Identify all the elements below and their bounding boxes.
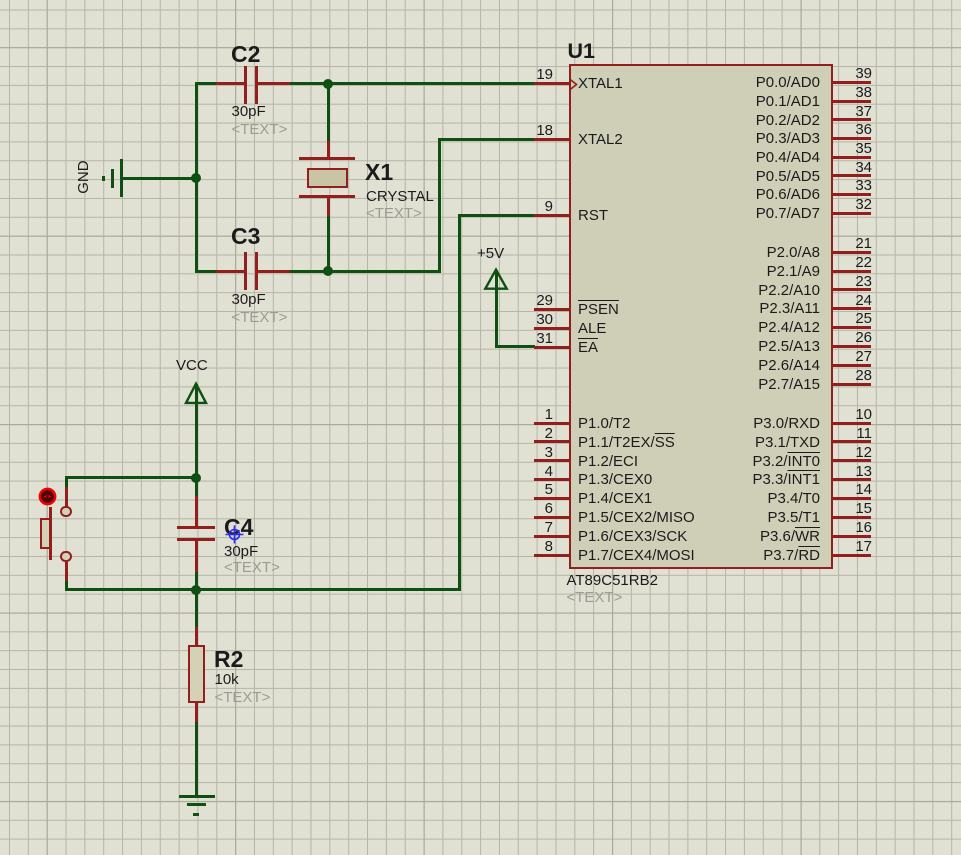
pin 8 stub (left) [534, 554, 570, 557]
pin 34 stub (right) [833, 174, 872, 177]
pin label pin21 [620, 245, 820, 261]
capacitor C3 right lead [258, 270, 290, 273]
resistor R2 top lead [195, 627, 198, 646]
value 30pF of C2 [232, 104, 266, 120]
pin number 24 [812, 293, 872, 309]
pin label P1.0/T2 [578, 416, 631, 432]
pin 32 stub (right) [833, 212, 872, 215]
placeholder &lt;TEXT&gt; of U1 [567, 590, 623, 606]
pin 4 stub (left) [534, 478, 570, 481]
pin number 10 [812, 407, 872, 423]
pin 12 stub (right) [833, 459, 872, 462]
wire X1 bottom to C3 net [327, 216, 330, 273]
pin 37 stub (right) [833, 118, 872, 121]
pin number 14 [812, 482, 872, 498]
pin 38 stub (right) [833, 100, 872, 103]
wire XTAL2 horizontal to pin 18 [438, 138, 535, 141]
label VCC [176, 358, 208, 374]
crystal X1 top lead [327, 141, 330, 158]
capacitor C2 left plate [244, 66, 247, 104]
pin label P1.7/CEX4/MOSI [578, 548, 695, 564]
pin 35 stub (right) [833, 156, 872, 159]
pin 5 stub (left) [534, 497, 570, 500]
wire +5V to pin 31 EA [495, 345, 535, 348]
capacitor C4 top lead [195, 496, 198, 527]
origin marker (blue) of C4 [224, 524, 245, 545]
label GND (rotated) [75, 157, 91, 197]
pin label pin26 [620, 339, 820, 355]
pin number 34 [812, 160, 872, 176]
pin number 17 [812, 539, 872, 555]
wire RST vertical x=459 [458, 214, 461, 591]
pin label pin28 [620, 377, 820, 393]
pin number 15 [812, 501, 872, 517]
pin label pin23 [620, 283, 820, 299]
pin 19 stub (left) [534, 82, 570, 85]
label C4 [224, 515, 253, 540]
label C3 [231, 224, 260, 249]
value 30pF of C4 [224, 544, 258, 560]
pin 2 stub (left) [534, 440, 570, 443]
ground symbol GND (rotated) tall bar [120, 159, 123, 197]
pin label ALE [578, 321, 606, 337]
pin number 25 [812, 311, 872, 327]
pin label pin38 [620, 94, 820, 110]
pin label pin16 [620, 529, 820, 545]
pin 31 stub (left) [534, 346, 570, 349]
button bottom contact circle [60, 551, 72, 563]
junction node bottom rail / C4 / R2 [191, 585, 201, 595]
pin label P1.2/ECI [578, 454, 638, 470]
wire button top horizontal [65, 476, 198, 479]
pin label pin25 [620, 320, 820, 336]
pin 6 stub (left) [534, 516, 570, 519]
pin 24 stub (right) [833, 307, 872, 310]
placeholder &lt;TEXT&gt; of C3 [232, 310, 288, 326]
wire C3 left segment [195, 270, 217, 273]
pin number 31 [493, 331, 553, 347]
pin 28 stub (right) [833, 383, 872, 386]
ground symbol bottom bar2 [187, 803, 207, 806]
pin 29 stub (left) [534, 308, 570, 311]
pin label pin35 [620, 150, 820, 166]
wire button bottom green part [65, 581, 68, 590]
pin label pin12 [620, 454, 820, 470]
pin 39 stub (right) [833, 81, 872, 84]
chip U1 body AT89C51RB2 [569, 64, 833, 569]
ground symbol bottom bar1 [179, 795, 215, 798]
wire C3 right to XTAL2 vertical [290, 270, 441, 273]
pin 10 stub (right) [833, 422, 872, 425]
pin number 13 [812, 464, 872, 480]
pin label 2 [578, 435, 675, 451]
capacitor C3 right plate [255, 252, 259, 290]
placeholder &lt;TEXT&gt; of C4 [224, 560, 280, 576]
pin 7 stub (left) [534, 535, 570, 538]
button actuator arm [49, 507, 52, 560]
resistor R2 bottom lead [195, 702, 198, 722]
pin number 19 [493, 67, 553, 83]
pin number 36 [812, 122, 872, 138]
button red actuator knob [38, 487, 58, 507]
pin 23 stub (right) [833, 288, 872, 291]
ground symbol bottom bar3 [193, 813, 199, 816]
pin number 23 [812, 274, 872, 290]
label X1 [365, 160, 393, 185]
wire node to R2 top [195, 590, 198, 629]
pin label pin14 [620, 491, 820, 507]
wire R2 bottom to ground [195, 722, 198, 796]
pin number 37 [812, 104, 872, 120]
pin number 29 [493, 293, 553, 309]
pin 15 stub (right) [833, 516, 872, 519]
wire left vertical x=196 (C2 to C3) [195, 82, 198, 273]
pin label XTAL2 [578, 132, 623, 148]
ground symbol GND medium bar [111, 169, 114, 188]
pin number 35 [812, 141, 872, 157]
button body [40, 518, 51, 549]
pin 3 stub (left) [534, 459, 570, 462]
crystal X1 top plate [299, 157, 355, 160]
capacitor C3 left plate [244, 252, 248, 290]
pin 26 stub (right) [833, 345, 872, 348]
pin 11 stub (right) [833, 440, 872, 443]
pin number 28 [812, 368, 872, 384]
label R2 [214, 647, 243, 672]
pin label 29 [578, 302, 619, 318]
pin label pin37 [620, 113, 820, 129]
pin label pin33 [620, 187, 820, 203]
pin label P1.4/CEX1 [578, 491, 652, 507]
pin 25 stub (right) [833, 326, 872, 329]
pin number 11 [812, 426, 872, 442]
pin 9 stub (left) [534, 214, 570, 217]
label +5V [477, 246, 504, 262]
pin number 4 [493, 464, 553, 480]
capacitor C3 left lead [216, 270, 244, 273]
wire VCC stem down to node [195, 384, 198, 478]
button top lead [65, 487, 68, 507]
junction node C3/X1 bottom [323, 266, 333, 276]
pin 21 stub (right) [833, 251, 872, 254]
pin 18 stub (left) [534, 138, 570, 141]
wire C2 right to XTAL1 pin [290, 82, 535, 85]
pin label pin36 [620, 131, 820, 147]
pin 33 stub (right) [833, 193, 872, 196]
pin label P1.3/CEX0 [578, 472, 652, 488]
pin number 9 [493, 199, 553, 215]
capacitor C2 right plate [255, 66, 258, 104]
pin number 32 [812, 197, 872, 213]
resistor R2 body [188, 645, 205, 703]
pin number 18 [493, 123, 553, 139]
pin label P1.5/CEX2/MISO [578, 510, 695, 526]
pin number 6 [493, 501, 553, 517]
pin number 38 [812, 85, 872, 101]
crystal X1 bottom plate [299, 195, 355, 198]
wire button top lead green part [65, 476, 68, 488]
capacitor C4 bottom lead [195, 539, 198, 572]
value 30pF of C3 [232, 292, 266, 308]
wire XTAL2 vertical x=439 [438, 138, 441, 271]
capacitor C4 bottom plate [177, 538, 215, 541]
pin number 21 [812, 236, 872, 252]
pin number 8 [493, 539, 553, 555]
junction node GND [191, 173, 201, 183]
pin label pin15 [620, 510, 820, 526]
pin 1 stub (left) [534, 422, 570, 425]
label U1 [568, 40, 595, 63]
pin 13 stub (right) [833, 478, 872, 481]
pin label 31 [578, 340, 598, 356]
pin label pin24 [620, 301, 820, 317]
pin label P1.6/CEX3/SCK [578, 529, 687, 545]
placeholder &lt;TEXT&gt; of X1 [366, 206, 422, 222]
crystal X1 bottom lead [327, 196, 330, 216]
pin number 16 [812, 520, 872, 536]
wire +5V stem [495, 270, 498, 347]
pin label pin27 [620, 358, 820, 374]
wire C4 bottom green part [195, 572, 198, 592]
wire bottom horizontal y=589 [65, 588, 461, 591]
pin label RST [578, 208, 608, 224]
pin 22 stub (right) [833, 270, 872, 273]
power symbol VCC arrow [182, 380, 210, 406]
pin number 2 [493, 426, 553, 442]
pin number 5 [493, 482, 553, 498]
junction node C2/X1 top [323, 79, 333, 89]
wire GND to node [123, 177, 198, 180]
placeholder &lt;TEXT&gt; of C2 [232, 122, 288, 138]
value 10k of R2 [215, 672, 239, 688]
pin label XTAL1 [578, 76, 623, 92]
clock marker on XTAL1 pin [570, 79, 579, 90]
pin label pin39 [620, 75, 820, 91]
pin label pin32 [620, 206, 820, 222]
pin number 33 [812, 178, 872, 194]
wire RST horizontal to pin 9 [458, 214, 535, 217]
pin 27 stub (right) [833, 364, 872, 367]
pin number 12 [812, 445, 872, 461]
pin 14 stub (right) [833, 497, 872, 500]
pin number 27 [812, 349, 872, 365]
junction node button top / VCC / C4 [191, 473, 201, 483]
pin label pin34 [620, 169, 820, 185]
pin 36 stub (right) [833, 137, 872, 140]
capacitor C4 top plate [177, 526, 215, 529]
value AT89C51RB2 of U1 [567, 573, 658, 589]
pin label pin11 [620, 435, 820, 451]
pin label pin22 [620, 264, 820, 280]
capacitor C2 left lead [216, 82, 244, 85]
placeholder &lt;TEXT&gt; of R2 [215, 690, 271, 706]
value CRYSTAL of X1 [366, 189, 434, 205]
pin 16 stub (right) [833, 535, 872, 538]
pin 30 stub (left) [534, 327, 570, 330]
ground symbol GND small bar [102, 176, 105, 181]
crystal X1 body [307, 168, 348, 188]
power symbol +5V arrow [482, 266, 510, 292]
pin number 26 [812, 330, 872, 346]
wire X1 top lead net [327, 84, 330, 142]
pin label pin17 [620, 548, 820, 564]
label C2 [231, 42, 260, 67]
wire C2 left segment (net XTAL1 left) [195, 82, 217, 85]
button top contact circle [60, 506, 72, 518]
pin number 39 [812, 66, 872, 82]
pin label pin10 [620, 416, 820, 432]
button bottom lead [65, 562, 68, 581]
pin label pin13 [620, 472, 820, 488]
pin number 30 [493, 312, 553, 328]
pin number 22 [812, 255, 872, 271]
pin number 1 [493, 407, 553, 423]
capacitor C2 right lead [258, 82, 291, 85]
wire node to C4 top [195, 476, 198, 497]
pin 17 stub (right) [833, 554, 872, 557]
pin number 3 [493, 445, 553, 461]
pin number 7 [493, 520, 553, 536]
